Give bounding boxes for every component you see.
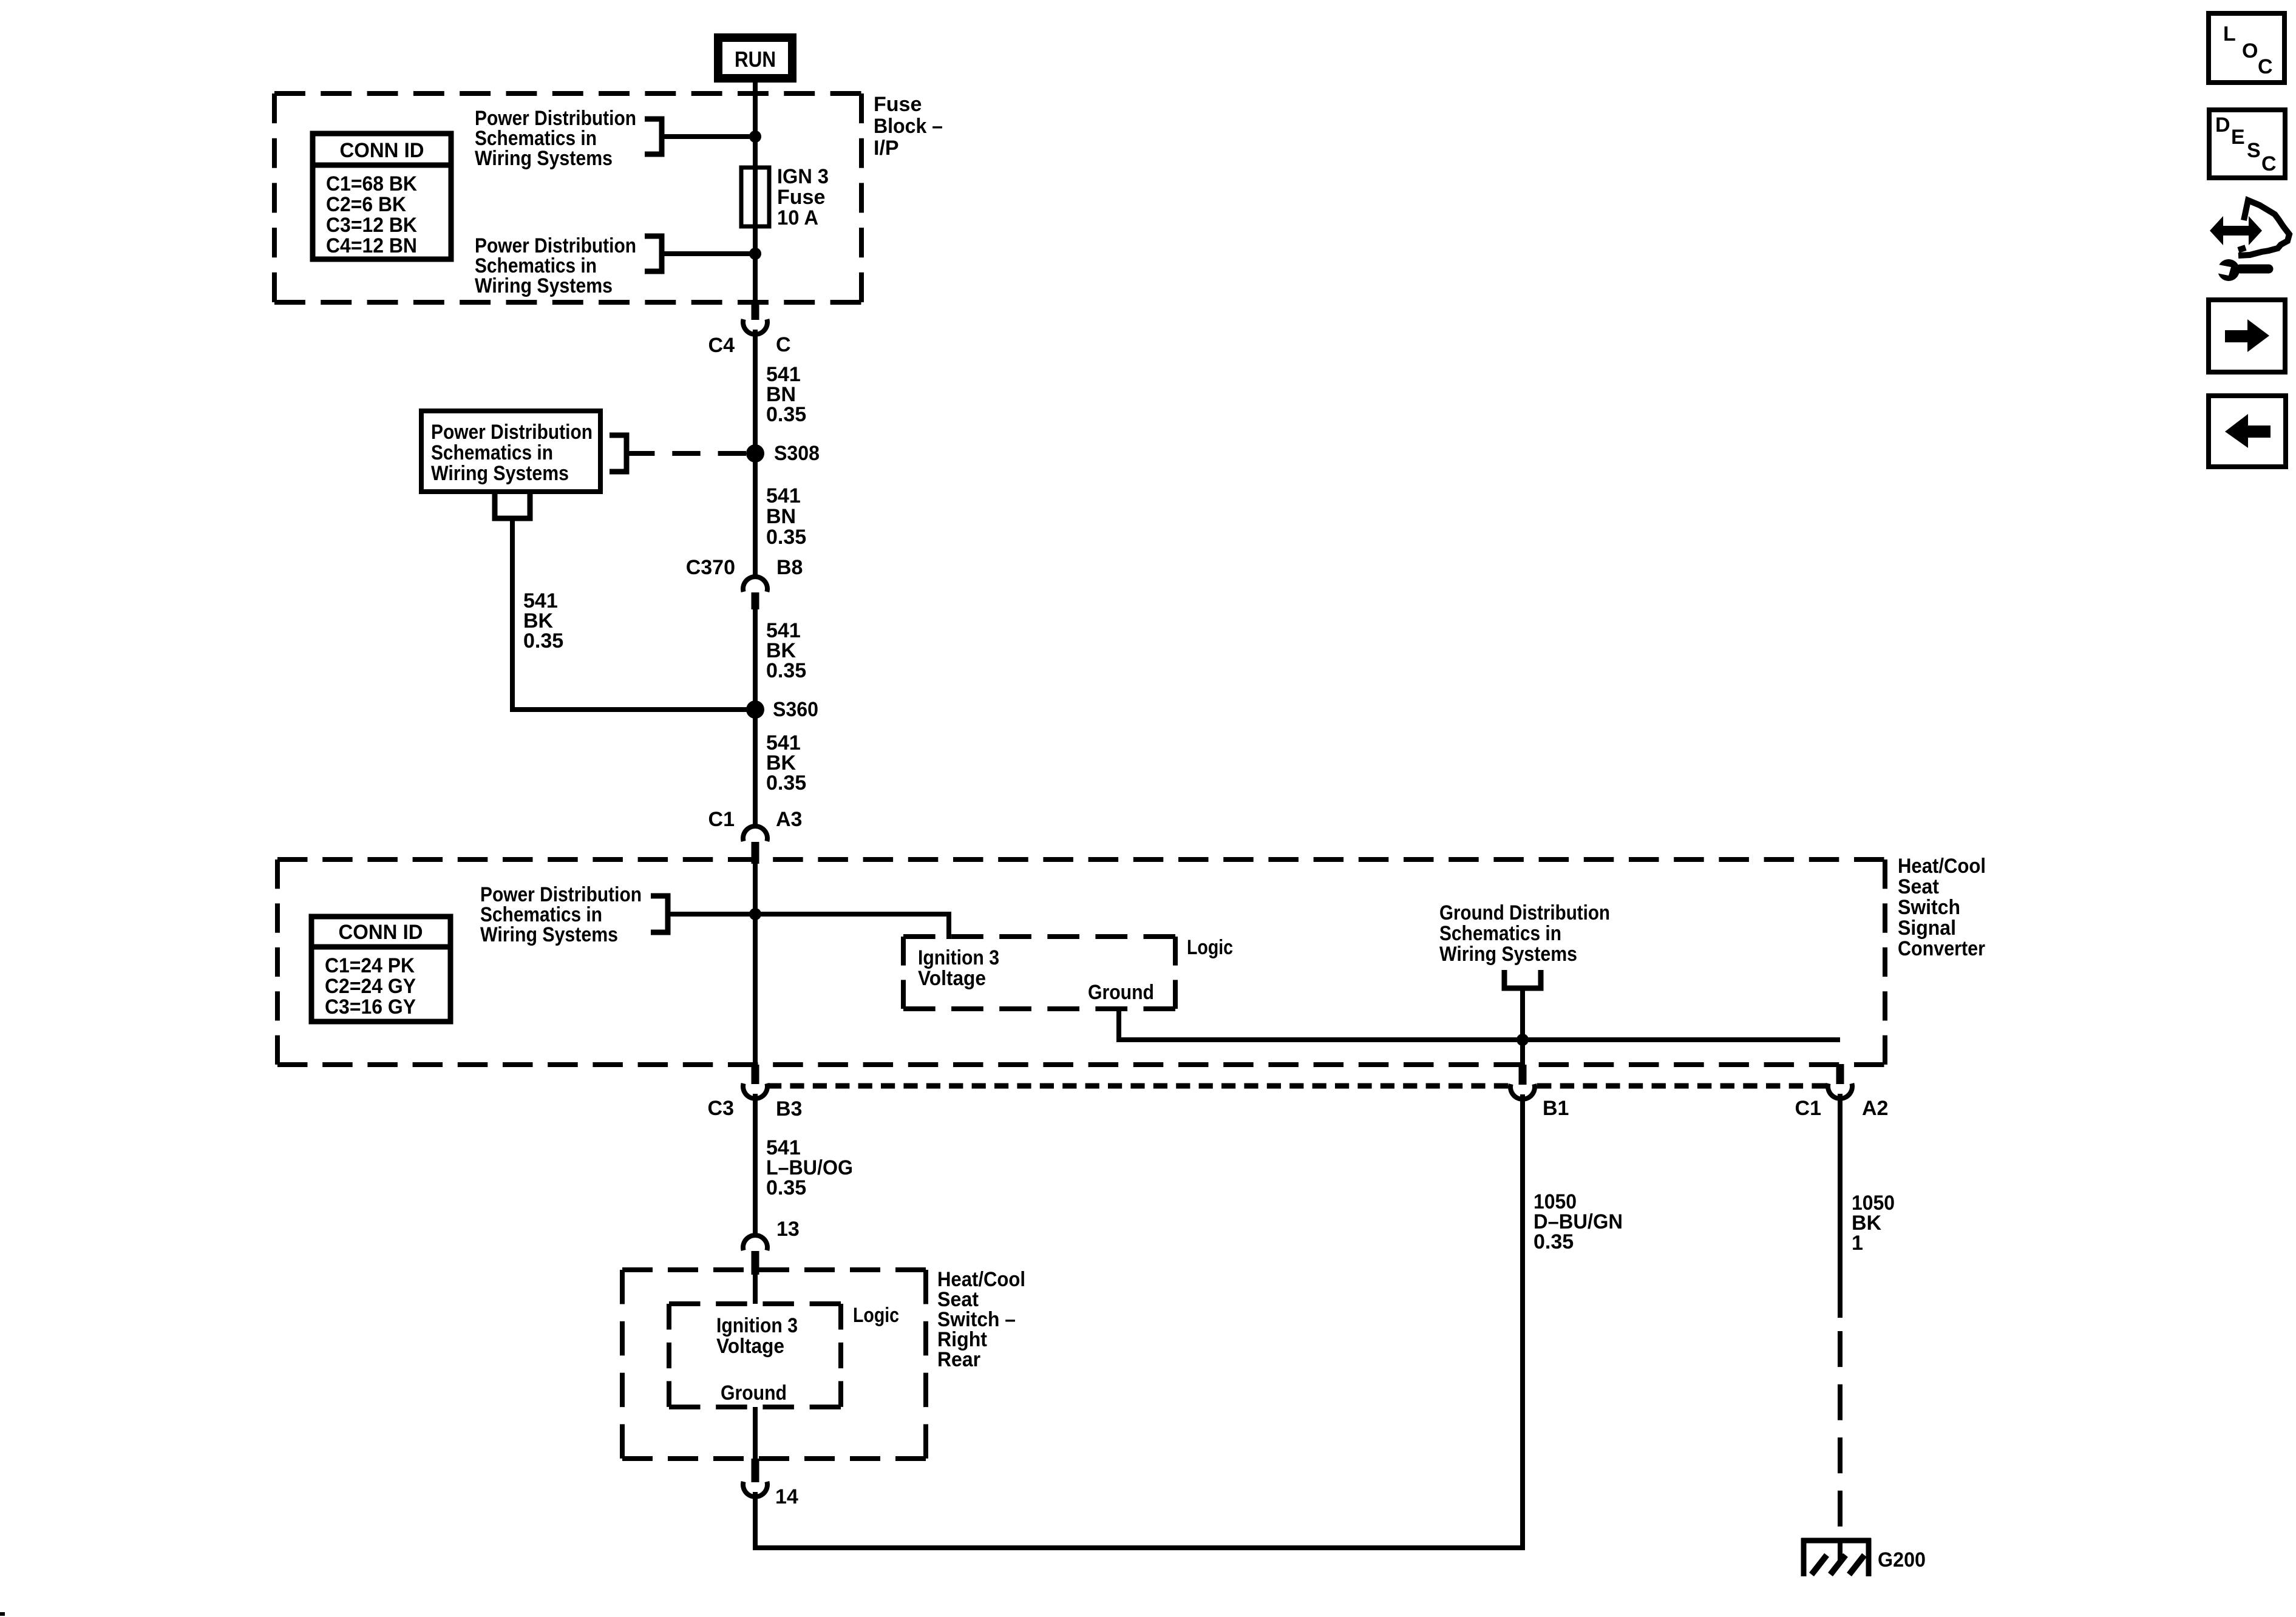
- left arrow icon box: [2209, 396, 2286, 467]
- Power Distribution reference 2: [475, 234, 636, 297]
- junction dot upper: [749, 131, 761, 143]
- wire label 1050 BK 1: [1852, 1192, 1895, 1255]
- ground wire from switch logic box: [753, 1407, 758, 1459]
- splice S308: [746, 444, 764, 463]
- svg-text:C3=16 GY: C3=16 GY: [325, 995, 416, 1019]
- svg-text:D: D: [2215, 114, 2230, 137]
- wire label 541 BN 0.35 seg1: [766, 363, 806, 426]
- Power Distribution reference 1: [475, 107, 636, 170]
- svg-text:Block –: Block –: [874, 115, 943, 138]
- svg-text:CONN ID: CONN ID: [339, 921, 423, 944]
- svg-text:C2=24 GY: C2=24 GY: [325, 975, 416, 998]
- DESC icon box: [2209, 110, 2285, 178]
- svg-text:541: 541: [766, 484, 801, 507]
- svg-text:C: C: [2258, 55, 2273, 78]
- bracket S308 reference: [610, 435, 627, 472]
- dashed wire segment to G200: [1838, 1331, 1843, 1527]
- svg-text:Ground: Ground: [721, 1381, 787, 1405]
- svg-text:0.35: 0.35: [766, 1176, 806, 1199]
- svg-text:Power Distribution: Power Distribution: [431, 421, 593, 444]
- junction dot on ground wire: [1517, 1034, 1529, 1046]
- wire label 1050 D-BU/GN 0.35: [1533, 1190, 1623, 1253]
- connector C4/C cup: [743, 319, 767, 334]
- svg-text:B3: B3: [776, 1097, 802, 1120]
- svg-text:Schematics in: Schematics in: [1439, 922, 1561, 945]
- logic dashed box (converter): [903, 934, 1175, 939]
- svg-text:C4=12 BN: C4=12 BN: [326, 234, 417, 257]
- svg-text:1: 1: [1852, 1232, 1863, 1255]
- svg-text:C1=68 BK: C1=68 BK: [326, 172, 417, 195]
- svg-text:14: 14: [775, 1485, 798, 1508]
- svg-text:IGN 3: IGN 3: [777, 165, 829, 188]
- svg-text:CONN ID: CONN ID: [340, 139, 424, 162]
- svg-text:S360: S360: [773, 698, 818, 721]
- junction dot lower: [749, 248, 761, 260]
- svg-text:C: C: [776, 333, 791, 356]
- svg-text:C370: C370: [686, 556, 735, 579]
- svg-text:C3: C3: [708, 1097, 734, 1120]
- svg-text:0.35: 0.35: [766, 526, 806, 549]
- svg-text:Ignition 3: Ignition 3: [918, 946, 999, 969]
- wire S308 to C370: [753, 453, 758, 577]
- svg-text:G200: G200: [1878, 1548, 1926, 1571]
- svg-text:A3: A3: [776, 808, 802, 831]
- svg-text:C1: C1: [708, 808, 735, 831]
- wire reference 1 to trunk: [662, 134, 755, 139]
- svg-text:L: L: [2223, 22, 2236, 46]
- svg-text:Fuse: Fuse: [777, 186, 825, 209]
- switch label: [937, 1268, 1025, 1371]
- U bracket below S308 reference box: [495, 492, 530, 518]
- wire label 541 BK 0.35 left: [523, 589, 563, 653]
- svg-text:Wiring Systems: Wiring Systems: [475, 147, 613, 170]
- svg-text:Wiring Systems: Wiring Systems: [475, 274, 613, 297]
- svg-text:B8: B8: [776, 556, 803, 579]
- connector C1/A3 dome: [743, 826, 767, 841]
- connector B1 stub: [1519, 1065, 1527, 1085]
- wire fuse to box edge: [753, 226, 758, 302]
- Heat/Cool Seat Switch Signal Converter dashed box: [277, 857, 1885, 862]
- connector B1 cup: [1510, 1084, 1535, 1099]
- svg-text:0.35: 0.35: [766, 659, 806, 682]
- svg-text:13: 13: [776, 1218, 800, 1241]
- svg-text:C: C: [2261, 152, 2277, 175]
- svg-text:0.35: 0.35: [766, 403, 806, 426]
- connector C370/B8 dome: [743, 577, 767, 592]
- Fuse Block - I/P dashed box: [274, 91, 861, 96]
- svg-text:Converter: Converter: [1898, 937, 1985, 960]
- connector 14 cup: [743, 1482, 767, 1497]
- bracket reference 1: [645, 119, 662, 154]
- LOC icon box: [2209, 13, 2284, 83]
- wire label 541 BK 0.35 seg4: [766, 731, 806, 795]
- wire label 541 BK 0.35 seg3: [766, 619, 806, 682]
- ground wire from logic box: [1119, 1009, 1840, 1040]
- wire C4 to S308: [753, 330, 758, 453]
- converter label: [1898, 855, 1986, 960]
- wire label 541 BN 0.35 seg2: [766, 484, 806, 549]
- svg-text:C1=24 PK: C1=24 PK: [325, 954, 415, 977]
- dotted connector line B3 to B1: [767, 1083, 1508, 1089]
- svg-text:Switch: Switch: [1898, 896, 1960, 919]
- wire label 541 L-BU/OG 0.35: [766, 1136, 853, 1199]
- fuse IGN 3 10 A: [741, 166, 769, 228]
- svg-text:RUN: RUN: [735, 47, 776, 72]
- connector 13 dome: [743, 1235, 767, 1250]
- wire reference 3 to logic box: [668, 914, 949, 939]
- CONN ID table (fuse block): [313, 134, 451, 259]
- dashed wire to S308: [627, 451, 746, 456]
- svg-text:C4: C4: [708, 334, 735, 357]
- junction dot on trunk: [749, 908, 761, 920]
- wire 14 to B1 bottom run: [755, 1094, 1523, 1548]
- svg-text:A2: A2: [1862, 1097, 1888, 1120]
- connector A2 cup: [1828, 1083, 1852, 1099]
- svg-text:Logic: Logic: [1187, 936, 1233, 959]
- wire C370 to S360: [753, 609, 758, 710]
- svg-text:C3=12 BK: C3=12 BK: [326, 214, 417, 237]
- svg-text:Rear: Rear: [937, 1348, 980, 1371]
- wire B3 to connector 13: [753, 1094, 758, 1235]
- connector 13 stub: [752, 1251, 759, 1275]
- ground G200 symbol: [1801, 1538, 1871, 1576]
- svg-text:Ground: Ground: [1088, 981, 1154, 1004]
- fuse label: [777, 165, 829, 229]
- right arrow icon box: [2209, 300, 2285, 372]
- svg-text:S308: S308: [774, 442, 820, 465]
- wire reference 2 to trunk: [662, 251, 755, 256]
- svg-text:10 A: 10 A: [777, 206, 818, 229]
- svg-text:B1: B1: [1543, 1097, 1569, 1120]
- wire Ground Distribution to junction: [1520, 988, 1525, 1066]
- svg-text:C1: C1: [1795, 1097, 1821, 1120]
- splice S360: [746, 700, 764, 719]
- trunk wire inside converter: [753, 864, 758, 1066]
- svg-text:I/P: I/P: [874, 137, 899, 160]
- connector C370/B8 stub: [752, 592, 759, 609]
- hand with double arrow and wrench icon: [2210, 200, 2289, 281]
- wire RUN to fuse: [753, 83, 758, 168]
- svg-text:Fuse: Fuse: [874, 93, 922, 116]
- svg-text:E: E: [2231, 126, 2245, 149]
- connector 14 stub: [752, 1459, 759, 1482]
- logic dashed box (switch): [669, 1301, 841, 1306]
- svg-text:Seat: Seat: [1898, 875, 1939, 898]
- wire A2 to ground: [1838, 1094, 1843, 1318]
- svg-text:Heat/Cool: Heat/Cool: [1898, 855, 1986, 878]
- svg-text:S: S: [2247, 139, 2261, 162]
- RUN ignition switch position box: [714, 33, 796, 83]
- connector B3 cup: [743, 1083, 767, 1099]
- Ground Distribution reference: [1439, 901, 1610, 966]
- connector B3 stub: [752, 1065, 759, 1084]
- svg-text:Wiring Systems: Wiring Systems: [431, 462, 569, 485]
- left branch wire 541 BK: [512, 518, 755, 710]
- wire S360 to C1/A3: [753, 710, 758, 826]
- Fuse Block - I/P label: [874, 93, 943, 160]
- svg-text:Voltage: Voltage: [918, 967, 986, 990]
- page corner mark: [0, 1612, 5, 1616]
- connector C1/A3 stub: [752, 842, 759, 864]
- svg-text:Voltage: Voltage: [716, 1335, 784, 1358]
- svg-text:0.35: 0.35: [766, 771, 806, 795]
- svg-text:Ignition 3: Ignition 3: [716, 1314, 798, 1337]
- Power Distribution reference box S308: [421, 411, 600, 492]
- svg-text:Schematics in: Schematics in: [431, 441, 553, 464]
- CONN ID table (converter): [311, 917, 450, 1022]
- bracket reference 3: [651, 896, 668, 932]
- svg-text:C2=6 BK: C2=6 BK: [326, 193, 406, 216]
- bracket reference 2: [645, 236, 662, 271]
- connector C4/C stub: [752, 302, 759, 320]
- svg-text:Ground Distribution: Ground Distribution: [1439, 901, 1610, 924]
- dotted connector line B1 to A2: [1537, 1083, 1826, 1089]
- wire 13 into switch logic box: [753, 1275, 758, 1304]
- svg-text:Signal: Signal: [1898, 917, 1956, 940]
- svg-text:O: O: [2242, 39, 2258, 63]
- Heat/Cool Seat Switch - Right Rear dashed box: [622, 1267, 926, 1272]
- svg-text:Logic: Logic: [853, 1304, 899, 1327]
- connector A2 stub: [1836, 1064, 1844, 1084]
- Power Distribution reference 3: [480, 883, 642, 946]
- svg-text:Wiring Systems: Wiring Systems: [480, 923, 618, 946]
- svg-text:Wiring Systems: Wiring Systems: [1439, 943, 1577, 966]
- svg-text:BN: BN: [766, 505, 796, 528]
- svg-text:0.35: 0.35: [1533, 1230, 1574, 1253]
- U bracket below Ground Distribution: [1504, 970, 1541, 988]
- svg-text:0.35: 0.35: [523, 629, 563, 653]
